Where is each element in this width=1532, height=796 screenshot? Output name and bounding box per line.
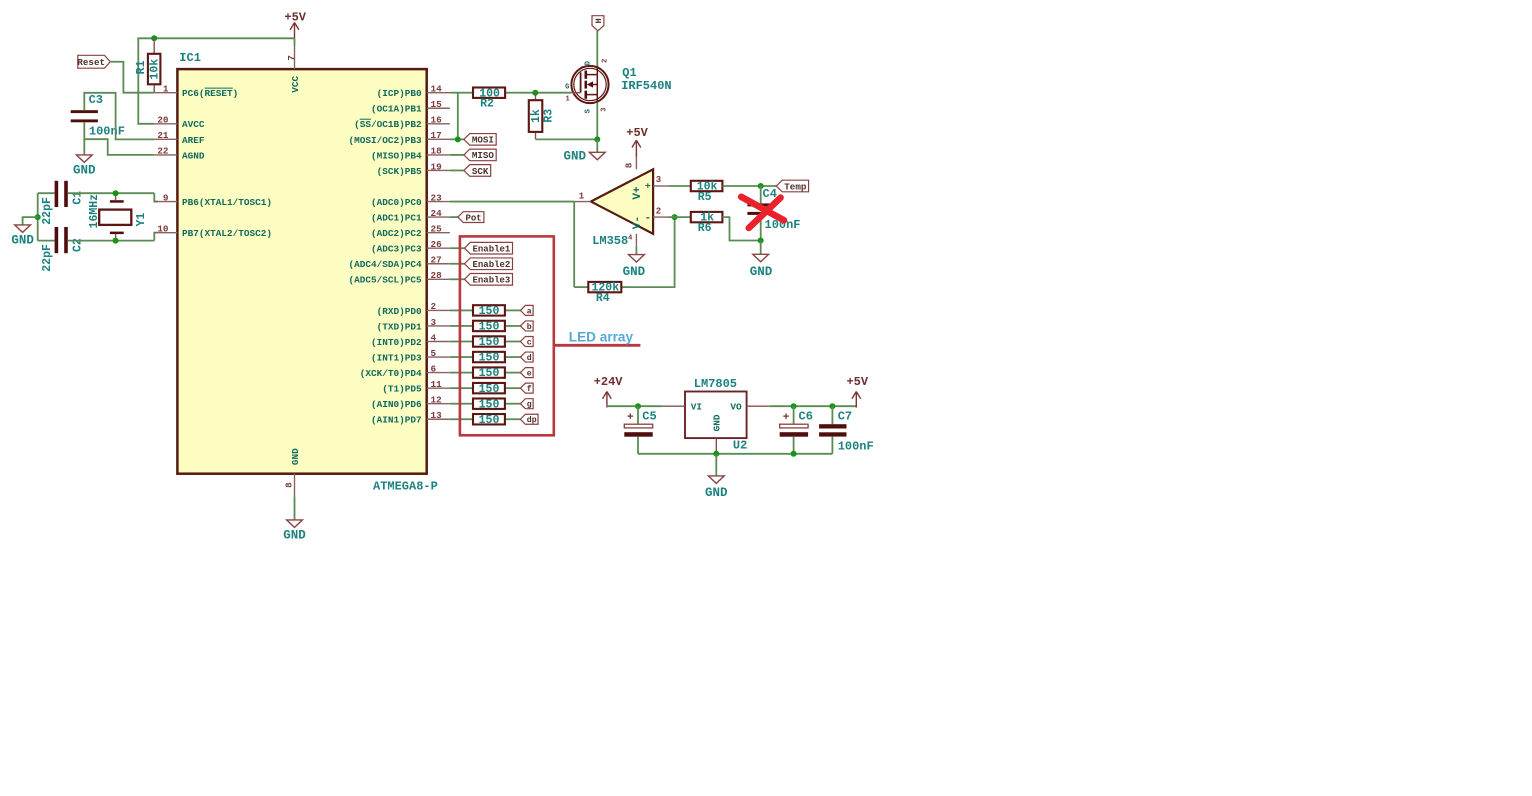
svg-text:7: 7: [286, 55, 297, 61]
wire ADC0 to op-amp output: [450, 201, 574, 203]
svg-text:+: +: [645, 181, 651, 192]
svg-text:GND: GND: [750, 265, 773, 279]
wire PB4 to MISO: [450, 154, 464, 156]
ground (C3): [73, 155, 96, 178]
svg-text:+24V: +24V: [594, 375, 624, 389]
svg-text:22pF: 22pF: [41, 244, 54, 272]
wire PC1 to Pot: [450, 216, 458, 218]
svg-text:2: 2: [656, 206, 661, 216]
annotation LED array box: [460, 236, 554, 435]
capacitor C2 22pF: [41, 227, 85, 272]
wire pin2 to R6: [669, 216, 691, 218]
svg-text:R4: R4: [596, 292, 610, 305]
svg-text:(MISO)PB4: (MISO)PB4: [371, 150, 422, 161]
resistor R1 10k: [135, 38, 161, 92]
svg-text:16MHz: 16MHz: [88, 194, 101, 229]
pin 10 PB7(XTAL2/TOSC2): [154, 223, 272, 239]
svg-text:MISO: MISO: [472, 150, 495, 161]
label g: [520, 399, 533, 410]
power +5V (VCC rail): [284, 10, 306, 38]
svg-text:LM358: LM358: [592, 234, 628, 248]
svg-text:12: 12: [431, 395, 443, 406]
svg-text:V+: V+: [632, 186, 644, 200]
wire pin3 to R5: [669, 185, 691, 187]
wire VO to +5V: [770, 405, 857, 407]
svg-text:g: g: [527, 401, 532, 410]
svg-text:100nF: 100nF: [838, 440, 874, 454]
svg-text:22pF: 22pF: [41, 197, 54, 225]
svg-text:28: 28: [431, 270, 443, 281]
ground (crystal): [11, 225, 34, 248]
svg-text:V-: V-: [632, 216, 644, 229]
wire PC3 to Enable1: [450, 247, 465, 249]
junction C6 top: [791, 403, 797, 409]
label a: [520, 305, 533, 316]
svg-text:AVCC: AVCC: [182, 119, 205, 130]
label H (drain net): [592, 16, 604, 31]
wire +24V to VI: [607, 405, 662, 407]
junction C4 top: [758, 183, 764, 189]
svg-text:GND: GND: [705, 486, 728, 500]
capacitor C7 100nF: [819, 406, 874, 454]
junction R1 top: [151, 35, 157, 41]
svg-text:Enable3: Enable3: [473, 276, 511, 286]
label SCK: [464, 165, 491, 177]
power +5V (regulator output): [846, 375, 868, 408]
pin 23 (ADC0)PC0: [371, 192, 450, 208]
pin 21 AREF: [154, 130, 205, 146]
pin 1 PC6(RESET): [154, 84, 238, 100]
regulator U2 LM7805: [662, 377, 770, 454]
pin 9 PB6(XTAL1/TOSC1): [154, 192, 272, 208]
wire R3 bottom to Q1 source: [536, 138, 598, 140]
svg-text:150: 150: [479, 352, 500, 365]
svg-text:+: +: [627, 412, 634, 424]
svg-text:(RXD)PD0: (RXD)PD0: [377, 306, 422, 317]
svg-text:D: D: [585, 61, 593, 65]
junction C4 bottom: [758, 238, 764, 244]
label Reset: [77, 55, 110, 68]
label Enable2: [465, 258, 513, 270]
svg-text:GND: GND: [73, 163, 96, 177]
svg-text:25: 25: [431, 223, 443, 234]
pin 2 (RXD)PD0: [377, 301, 450, 317]
svg-text:(INT1)PD3: (INT1)PD3: [371, 352, 422, 363]
resistor 150 (segment f): [450, 383, 521, 396]
svg-text:13: 13: [431, 410, 443, 421]
wire ground rail: [638, 453, 832, 455]
label Temp: [776, 180, 808, 192]
annotation LED array callout line: [554, 344, 641, 347]
ground (IC pin 8): [283, 497, 306, 543]
wire R6 to C4 bottom: [722, 217, 760, 240]
svg-text:150: 150: [479, 336, 500, 349]
junction source/R3/ground: [594, 136, 600, 142]
svg-text:5: 5: [431, 348, 437, 359]
pin 22 AGND: [154, 146, 205, 162]
svg-text:8: 8: [284, 482, 295, 488]
junction C5 top: [635, 403, 641, 409]
pin 20 AVCC: [154, 115, 205, 131]
svg-text:Temp: Temp: [784, 181, 807, 192]
svg-text:f: f: [527, 384, 532, 394]
power +5V (op-amp pin 8): [626, 126, 648, 156]
junction C7 top: [829, 403, 835, 409]
svg-text:LM7805: LM7805: [694, 377, 737, 391]
svg-text:VO: VO: [730, 401, 742, 412]
pin 4 (INT0)PD2: [371, 332, 450, 348]
svg-text:15: 15: [431, 99, 443, 110]
label b: [520, 321, 533, 332]
svg-text:R5: R5: [698, 191, 712, 204]
crystal Y1 16MHz: [88, 193, 148, 240]
wire PC4 to Enable2: [450, 263, 465, 265]
svg-text:LED array: LED array: [569, 329, 634, 344]
pin 24 (ADC1)PC1: [371, 208, 450, 224]
op-amp LM358: [574, 154, 668, 248]
wire R5 to Temp/C4: [722, 185, 776, 187]
svg-text:150: 150: [479, 414, 500, 427]
svg-text:b: b: [527, 322, 532, 332]
junction XTAL2 at C2/Y1: [113, 238, 119, 244]
svg-text:R1: R1: [135, 60, 148, 74]
pin 5 (INT1)PD3: [371, 348, 450, 364]
capacitor C4 100nF: [747, 186, 800, 241]
svg-text:R3: R3: [542, 109, 555, 123]
svg-text:16: 16: [431, 115, 443, 126]
svg-text:10: 10: [157, 223, 169, 234]
svg-text:U2: U2: [733, 439, 747, 453]
svg-text:(ADC4/SDA)PC4: (ADC4/SDA)PC4: [349, 259, 423, 270]
ground (regulator): [705, 454, 728, 500]
svg-text:GND: GND: [290, 448, 301, 465]
label c: [520, 337, 533, 348]
svg-text:10k: 10k: [148, 59, 161, 80]
power +24V: [594, 375, 624, 408]
wire R2 to Q1 gate: [520, 92, 571, 94]
resistor R5 10k: [691, 181, 723, 204]
wire Q1 source down: [596, 103, 598, 140]
svg-text:(T1)PD5: (T1)PD5: [382, 384, 422, 395]
svg-text:21: 21: [157, 130, 169, 141]
pin 11 (T1)PD5: [382, 379, 449, 395]
svg-text:150: 150: [479, 305, 500, 318]
pin 18 (MISO)PB4: [371, 146, 450, 162]
svg-text:150: 150: [479, 367, 500, 380]
pin 28 (ADC5/SCL)PC5: [349, 270, 450, 286]
pin 27 (ADC4/SDA)PC4: [349, 255, 450, 271]
svg-text:GND: GND: [563, 149, 586, 163]
svg-text:Pot: Pot: [466, 213, 482, 223]
junction rail at C6: [791, 451, 797, 457]
svg-text:(ADC1)PC1: (ADC1)PC1: [371, 213, 422, 224]
resistor 150 (segment a): [450, 305, 521, 318]
svg-text:(XCK/T0)PD4: (XCK/T0)PD4: [360, 368, 422, 379]
resistor 150 (segment c): [450, 336, 521, 349]
svg-text:(INT0)PD2: (INT0)PD2: [371, 337, 422, 348]
junction rail at U2 GND: [713, 451, 719, 457]
svg-text:1: 1: [579, 192, 585, 202]
pin 12 (AIN0)PD6: [371, 395, 450, 411]
svg-text:-: -: [644, 212, 651, 224]
svg-text:11: 11: [431, 379, 443, 390]
svg-text:(AIN0)PD6: (AIN0)PD6: [371, 399, 422, 410]
svg-text:Y1: Y1: [135, 213, 148, 227]
svg-text:(ADC5/SCL)PC5: (ADC5/SCL)PC5: [349, 275, 423, 286]
svg-text:1: 1: [163, 84, 169, 95]
wire PB5 to SCK: [450, 169, 464, 171]
svg-text:VI: VI: [691, 401, 702, 412]
junction R3 top: [532, 90, 538, 96]
svg-text:C5: C5: [642, 409, 656, 423]
wire XTAL2 net: [38, 193, 158, 240]
svg-text:c: c: [527, 338, 532, 347]
svg-text:SCK: SCK: [472, 166, 489, 177]
svg-text:H: H: [594, 18, 604, 23]
svg-text:(SS/OC1B)PB2: (SS/OC1B)PB2: [354, 119, 422, 130]
pin 25 (ADC2)PC2: [371, 223, 450, 239]
svg-text:R6: R6: [698, 222, 712, 235]
junction XTAL1 at C1/Y1: [113, 190, 119, 196]
svg-text:1k: 1k: [530, 109, 543, 123]
svg-text:1: 1: [565, 95, 569, 103]
svg-text:(ADC0)PC0: (ADC0)PC0: [371, 197, 422, 208]
svg-text:19: 19: [431, 161, 443, 172]
transistor Q1 IRF540N: [565, 59, 672, 114]
svg-text:IC1: IC1: [179, 51, 201, 65]
svg-text:20: 20: [157, 115, 169, 126]
resistor 150 (segment d): [450, 352, 521, 365]
wire Reset to PC6 pin 1: [110, 62, 154, 93]
pin 6 (XCK/T0)PD4: [360, 363, 450, 379]
ground (op-amp pin 4): [623, 247, 646, 280]
label d: [520, 352, 533, 363]
wire +5V rail to AVCC and VCC: [138, 38, 294, 124]
svg-text:3: 3: [656, 175, 661, 185]
svg-text:(ICP)PB0: (ICP)PB0: [377, 88, 422, 99]
resistor 150 (segment e): [450, 367, 521, 380]
svg-text:AGND: AGND: [182, 150, 205, 161]
pin 16 (SS/OC1B)PB2: [354, 115, 450, 131]
svg-text:dp: dp: [527, 415, 537, 425]
svg-text:R2: R2: [480, 98, 494, 111]
svg-text:e: e: [527, 370, 532, 379]
resistor 150 (segment b): [450, 321, 521, 334]
svg-text:150: 150: [479, 383, 500, 396]
wire feedback down to R4: [573, 202, 575, 288]
svg-text:+: +: [783, 412, 790, 424]
wire H to Q1 drain: [596, 31, 598, 67]
svg-text:GND: GND: [623, 265, 646, 279]
wire C3 bottom to AGND pin 22 and ground: [84, 122, 154, 155]
label MISO: [464, 149, 496, 161]
svg-text:C7: C7: [838, 409, 852, 423]
pin 17 (MOSI/OC2)PB3: [349, 130, 450, 146]
pin 14 (ICP)PB0: [377, 84, 450, 100]
svg-text:G: G: [565, 83, 569, 91]
wire PB0 to R2: [450, 93, 459, 140]
svg-text:14: 14: [431, 84, 443, 95]
svg-text:18: 18: [431, 146, 443, 157]
svg-text:Reset: Reset: [77, 57, 105, 68]
svg-text:(ADC2)PC2: (ADC2)PC2: [371, 228, 422, 239]
capacitor C6 (electrolytic): [780, 406, 813, 454]
wire to crystal ground: [23, 217, 38, 225]
wire PB3 to MOSI: [450, 138, 464, 140]
label Enable3: [465, 274, 513, 286]
svg-text:+5V: +5V: [284, 10, 306, 24]
svg-text:(AIN1)PD7: (AIN1)PD7: [371, 415, 422, 426]
svg-text:4: 4: [628, 235, 632, 243]
svg-text:ATMEGA8-P: ATMEGA8-P: [373, 479, 438, 493]
annotation red X over C4: [741, 197, 784, 228]
capacitor C5 (electrolytic): [624, 406, 656, 454]
junction crystal ground branch: [35, 214, 41, 220]
svg-text:MOSI: MOSI: [472, 135, 494, 146]
svg-text:9: 9: [163, 192, 169, 203]
svg-text:8: 8: [624, 162, 635, 168]
label Pot: [458, 212, 484, 224]
label e: [520, 368, 533, 379]
svg-text:PB7(XTAL2/TOSC2): PB7(XTAL2/TOSC2): [182, 228, 272, 239]
svg-text:Q1: Q1: [622, 66, 636, 80]
label dp: [520, 414, 538, 425]
svg-text:150: 150: [479, 321, 500, 334]
pin 7 VCC (top): [286, 46, 301, 93]
pin 19 (SCK)PB5: [377, 161, 450, 177]
svg-text:150: 150: [479, 398, 500, 411]
capacitor C3 100nF: [71, 93, 125, 138]
svg-text:3: 3: [431, 317, 437, 328]
pin 26 (ADC3)PC3: [371, 239, 450, 255]
svg-text:24: 24: [431, 208, 443, 219]
wire PC5 to Enable3: [450, 278, 465, 280]
svg-text:22: 22: [157, 146, 169, 157]
capacitor C1 22pF: [41, 181, 85, 225]
label Enable1: [465, 242, 513, 254]
svg-text:GND: GND: [712, 414, 723, 431]
resistor R3 1k: [529, 93, 556, 140]
svg-text:+5V: +5V: [846, 375, 868, 389]
svg-text:+5V: +5V: [626, 126, 648, 140]
svg-text:C6: C6: [799, 409, 813, 423]
svg-text:6: 6: [431, 363, 437, 374]
svg-text:S: S: [585, 109, 593, 113]
IC IC1 ATMEGA8-P body: [177, 51, 437, 493]
wire C3 top to AREF pin 21: [84, 93, 154, 140]
svg-text:GND: GND: [11, 233, 34, 247]
wire XTAL1 net: [38, 193, 158, 201]
resistor 150 (segment dp): [450, 414, 521, 427]
svg-text:3: 3: [601, 107, 609, 111]
resistor R6 1k: [691, 212, 723, 235]
svg-text:23: 23: [431, 192, 443, 203]
pin 3 (TXD)PD1: [377, 317, 450, 333]
svg-text:GND: GND: [283, 528, 306, 542]
label MOSI: [464, 134, 496, 146]
resistor R2 100: [459, 87, 520, 110]
junction MOSI node: [455, 136, 461, 142]
svg-text:(TXD)PD1: (TXD)PD1: [377, 321, 422, 332]
svg-text:PC6(RESET): PC6(RESET): [182, 88, 238, 99]
resistor R4 120k: [574, 282, 630, 305]
resistor 150 (segment g): [450, 398, 521, 411]
svg-text:Enable1: Enable1: [473, 244, 511, 254]
svg-text:a: a: [527, 307, 532, 316]
svg-text:C3: C3: [89, 93, 103, 107]
svg-text:2: 2: [431, 301, 437, 312]
pin 13 (AIN1)PD7: [371, 410, 450, 426]
svg-text:(SCK)PB5: (SCK)PB5: [377, 166, 422, 177]
svg-text:(OC1A)PB1: (OC1A)PB1: [371, 104, 422, 115]
svg-text:(MOSI/OC2)PB3: (MOSI/OC2)PB3: [349, 135, 423, 146]
junction inverting input node: [672, 214, 678, 220]
label f: [520, 383, 533, 394]
svg-text:AREF: AREF: [182, 135, 205, 146]
svg-text:26: 26: [431, 239, 443, 250]
svg-text:(ADC3)PC3: (ADC3)PC3: [371, 244, 422, 255]
pin 15 (OC1A)PB1: [371, 99, 450, 115]
svg-text:100nF: 100nF: [89, 124, 125, 138]
pin 8 GND (bottom): [284, 448, 301, 497]
svg-text:4: 4: [431, 332, 437, 343]
svg-text:VCC: VCC: [290, 75, 301, 92]
svg-text:27: 27: [431, 255, 442, 266]
svg-text:Enable2: Enable2: [473, 260, 511, 270]
svg-text:IRF540N: IRF540N: [621, 79, 671, 93]
svg-text:PB6(XTAL1/TOSC1): PB6(XTAL1/TOSC1): [182, 197, 272, 208]
ground (Q1 source): [563, 139, 605, 163]
svg-text:d: d: [527, 353, 532, 363]
svg-text:17: 17: [431, 130, 442, 141]
svg-text:2: 2: [601, 59, 609, 63]
wire R4 to inverting node: [630, 217, 675, 287]
ground (C4): [750, 241, 773, 279]
